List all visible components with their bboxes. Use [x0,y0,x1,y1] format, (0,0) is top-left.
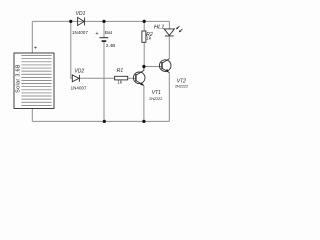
wire VT2 emitter to rail [168,72,170,121]
svg-text:VT1: VT1 [152,90,161,96]
wire battery bottom lead to rail [103,42,105,122]
solar battery GB1 [14,53,54,109]
junction node A (solar/VD1/VD2) [69,20,72,23]
wire VD2 cathode to R1 [80,77,115,79]
wire node B to VT2 base [144,66,162,68]
svg-text:VD1: VD1 [76,11,86,17]
wire top rail [32,20,169,22]
transistor VT2 2N2222 [159,59,171,73]
VT1 emitter arrowhead [140,82,143,85]
svg-text:Solar 3.6B: Solar 3.6B [16,64,22,93]
wire left vertical (solar + lead) [31,21,33,53]
wire R2 bottom lead to node B [143,42,145,66]
svg-text:2.4B: 2.4B [106,43,115,48]
svg-text:R1: R1 [117,68,124,74]
junction node R2 top [143,20,146,23]
svg-text:VT2: VT2 [177,78,186,84]
junction node B (R2/VT1 collector/VT2 base) [142,65,145,68]
wire bottom rail [32,120,169,122]
junction node battery plus [102,20,105,23]
LED HL1 [164,29,174,36]
wire R1 to VT1 base [128,77,136,79]
diode VD1 [78,17,85,25]
junction node VT1 emitter on rail [142,120,145,123]
svg-text:1N4007: 1N4007 [71,86,87,91]
svg-text:+: + [95,31,98,37]
resistor R2 [142,31,146,42]
VT2 emitter arrowhead [166,69,169,72]
svg-text:2N2222: 2N2222 [149,97,162,101]
svg-text:1k: 1k [117,79,123,84]
wire battery top lead [103,21,105,37]
battery Bat 2.4V [100,38,109,41]
wire LED top lead [168,21,170,28]
svg-text:Bat: Bat [105,30,113,35]
diode VD2 [72,75,79,82]
svg-text:2N2222: 2N2222 [175,85,188,89]
LED arrows [176,26,182,32]
svg-text:VD2: VD2 [74,68,84,74]
transistor VT1 2N2222 [133,67,145,86]
resistor R1 [115,76,128,80]
svg-text:HL1: HL1 [154,24,164,30]
wire R2 top lead [143,21,145,31]
svg-text:+: + [34,46,37,52]
svg-text:1N4007: 1N4007 [72,30,88,35]
wire LED cathode to VT2 collector [168,36,170,59]
svg-text:1k: 1k [146,35,152,40]
wire VD2 branch from node A [71,21,73,78]
wire VT1 emitter to rail [143,85,145,121]
junction node battery minus on rail [103,120,106,123]
wire solar bottom lead [31,109,33,122]
